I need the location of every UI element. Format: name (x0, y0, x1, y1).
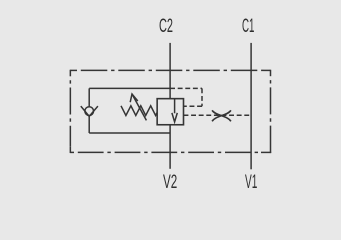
enclosure boundary corner top-left (70, 70, 77, 77)
wire bypass loop left lower (88, 116, 90, 133)
spring (121, 106, 157, 116)
valve body U1 (157, 99, 183, 125)
wire C2 line lower (169, 125, 171, 169)
pilot line to C1 (dashed) (184, 114, 252, 116)
check valve seat (81, 106, 98, 116)
check valve ball (85, 107, 94, 116)
enclosure boundary corner bottom-left (70, 147, 74, 153)
orifice (212, 110, 231, 121)
enclosure boundary right edge (dash-dot) (270, 76, 272, 147)
port label C2 (159, 17, 173, 36)
spring adjustment arrow (130, 94, 146, 120)
port label C1 (242, 17, 254, 36)
port label V2 (163, 173, 177, 192)
wire bypass loop bottom (89, 132, 170, 134)
enclosure boundary bottom edge (dash-dot) (74, 151, 261, 153)
pilot line upper loop (dashed) (170, 88, 202, 106)
enclosure boundary corner bottom-right (261, 147, 271, 153)
enclosure boundary corner top-right (264, 70, 271, 76)
wire C2 line upper (169, 43, 171, 99)
enclosure boundary top edge (dash-dot) (77, 69, 264, 71)
wire bypass loop top (89, 87, 170, 89)
valve flow path arrow (172, 99, 177, 122)
wire bypass loop left upper (88, 88, 90, 107)
wire C1 line (250, 43, 252, 169)
enclosure boundary left edge (dash-dot) (69, 76, 71, 147)
port label V1 (245, 173, 257, 192)
